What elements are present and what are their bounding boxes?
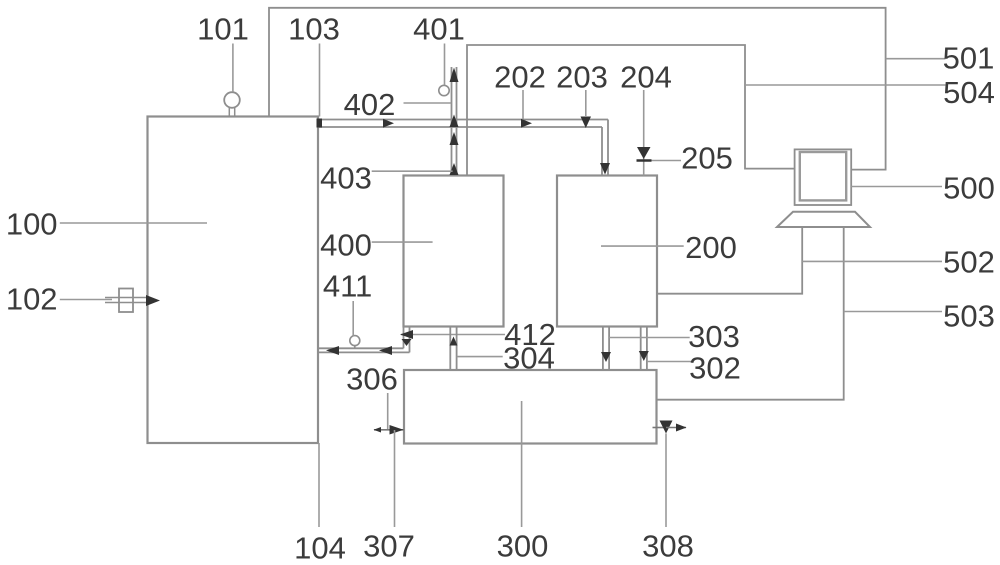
- flow arrow on pipe: [383, 119, 394, 128]
- down arrow on return pipe elbow: [402, 339, 412, 346]
- leader 412 with left arrow: [401, 334, 505, 336]
- svg-text:103: 103: [288, 12, 340, 47]
- svg-text:403: 403: [320, 161, 372, 196]
- svg-text:302: 302: [689, 351, 741, 386]
- leader 205: [652, 160, 682, 162]
- pipe 302: vessel200 bottom to vessel300: [641, 327, 647, 371]
- pipe 201: vessel100 to vessel200 top: [319, 120, 609, 176]
- svg-text:307: 307: [363, 529, 415, 564]
- svg-text:306: 306: [346, 362, 398, 397]
- leader 403: [372, 170, 453, 172]
- leader 103: [319, 44, 321, 117]
- wire loop 501: vessel100 top to unit500 right: [269, 8, 886, 170]
- return pipe 411/412: vessel400 bottom to vessel100: [319, 327, 410, 353]
- leader 303: [609, 337, 690, 339]
- svg-text:202: 202: [494, 60, 546, 95]
- stem right: hood to vessel300 (wire 503): [657, 227, 844, 400]
- valve 205: down arrow and tick: [637, 147, 651, 159]
- vent pipe up arrows: [450, 68, 459, 83]
- leader 300: [521, 401, 523, 527]
- valve circle 401: [439, 85, 449, 95]
- svg-text:101: 101: [197, 12, 249, 47]
- svg-text:104: 104: [294, 531, 346, 565]
- vessel 200: [557, 176, 657, 327]
- svg-text:303: 303: [688, 319, 740, 354]
- gauge 101: circle on vessel100 top: [224, 92, 240, 108]
- corner arrow 203: [581, 117, 592, 129]
- svg-text:504: 504: [943, 75, 995, 110]
- vessel 100: [148, 117, 319, 444]
- svg-text:203: 203: [556, 60, 608, 95]
- leader 100: [60, 222, 207, 224]
- leader 307: [394, 430, 396, 527]
- leader 501: [886, 58, 946, 60]
- leader 104: [318, 443, 320, 527]
- feed line 204 into vessel200: [643, 90, 645, 176]
- vessel 300: [404, 370, 657, 444]
- leader 401: [444, 44, 446, 86]
- svg-text:503: 503: [943, 299, 995, 334]
- svg-text:401: 401: [413, 12, 465, 47]
- pipe 303: vessel200 bottom to vessel300: [603, 327, 609, 371]
- leader 200: [601, 245, 684, 247]
- leader 411: [352, 301, 354, 336]
- svg-text:100: 100: [6, 207, 58, 242]
- vessel 400: [404, 176, 504, 327]
- leader 306: [387, 393, 389, 429]
- leader 400: [372, 241, 433, 243]
- svg-text:205: 205: [681, 141, 733, 176]
- leader 308: [665, 434, 667, 528]
- leader 402: [404, 102, 452, 104]
- svg-text:502: 502: [943, 245, 995, 280]
- svg-text:500: 500: [943, 171, 995, 206]
- leader 500: [851, 186, 942, 188]
- unit 500 outer box: [795, 149, 852, 205]
- down arrow on pipe 303: [601, 352, 611, 362]
- svg-text:501: 501: [943, 41, 995, 76]
- down arrow into vessel200: [600, 163, 610, 175]
- inlet valve 102: [60, 299, 112, 301]
- outlet arrow 308 at vessel300 right: [653, 427, 667, 429]
- leader 304: [457, 356, 503, 358]
- svg-text:300: 300: [497, 529, 549, 564]
- left flow arrows on return pipe: [326, 346, 339, 355]
- unit 500 inner box: [800, 152, 846, 200]
- leader 202: [522, 90, 524, 120]
- sensor circle 411: [350, 336, 360, 346]
- up arrow on pipe 304: [450, 337, 458, 346]
- svg-text:400: 400: [320, 228, 372, 263]
- leader 504: [745, 84, 945, 86]
- pipe 304: vessel400 bottom to vessel300: [450, 327, 456, 371]
- junction mark at pipe start: [317, 119, 323, 128]
- flow arrow 202: [521, 119, 532, 128]
- wire loop 504 source: vessel400 top to unit500 left: [467, 45, 795, 176]
- leader 302: [647, 361, 691, 363]
- leader 203: [585, 90, 587, 117]
- inlet arrow 306/307 at vessel300 left: [374, 429, 404, 431]
- leader 101: [232, 44, 234, 93]
- svg-text:102: 102: [6, 282, 58, 317]
- svg-text:402: 402: [344, 87, 396, 122]
- stem left: hood to vessel200 (wire 502): [657, 227, 803, 294]
- leader 502: [802, 260, 942, 262]
- unit 500 trapezoid hood: [777, 212, 870, 227]
- svg-text:204: 204: [620, 60, 672, 95]
- leader 503: [844, 311, 942, 313]
- svg-text:304: 304: [503, 341, 555, 376]
- down arrow on pipe 302: [639, 351, 649, 361]
- svg-text:200: 200: [685, 230, 737, 265]
- svg-text:308: 308: [642, 529, 694, 564]
- svg-text:411: 411: [323, 269, 372, 304]
- vent pipe 403: [452, 67, 457, 176]
